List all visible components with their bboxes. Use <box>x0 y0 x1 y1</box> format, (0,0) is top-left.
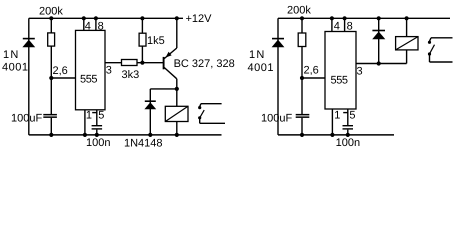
svg-text:3k3: 3k3 <box>122 69 140 81</box>
diode D3 1N4001 (right) <box>272 39 285 48</box>
switch relay contact (right) <box>428 38 453 62</box>
junction dot pin4 rail (right) <box>330 16 334 20</box>
svg-text:100n: 100n <box>86 137 110 149</box>
relay K2 coil (right) <box>396 18 418 63</box>
resistor 200k (left) <box>48 18 55 78</box>
pin label 4 (left) <box>85 21 91 33</box>
op-amp U1 555 timer (left) <box>76 30 106 109</box>
pin label 3 (left) <box>106 64 112 76</box>
label 100uF (right) <box>261 113 292 125</box>
pin label 1 (left) <box>86 110 92 122</box>
pin label 5 (right) <box>349 110 355 122</box>
label 1N4148 <box>124 137 163 149</box>
wire pin 5 (left) <box>96 110 98 125</box>
svg-text:200k: 200k <box>39 6 63 18</box>
label 1N (left) <box>3 49 19 61</box>
diode D4 flyback (right) <box>372 18 385 63</box>
label 200k (right) <box>287 5 311 17</box>
label 4001 (left) <box>2 62 28 74</box>
svg-text:1N: 1N <box>3 49 19 61</box>
label 1k5 <box>147 35 165 47</box>
junction dot 1N4148 ground <box>148 133 152 137</box>
junction dot emitter rail <box>175 16 179 20</box>
relay K1 coil (left) <box>165 106 188 135</box>
svg-text:100uF: 100uF <box>261 113 292 125</box>
label 555 (left) <box>80 73 97 85</box>
capacitor 100uF (left) <box>43 114 57 135</box>
svg-text:100n: 100n <box>336 137 360 149</box>
svg-text:1: 1 <box>334 110 340 122</box>
wire bottom rail right circuit <box>278 134 394 136</box>
pin label 3 (right) <box>357 66 363 78</box>
label 555 (right) <box>331 75 348 87</box>
junction dot pin3/diode (right) <box>377 61 381 65</box>
junction dot rail/200k (left) <box>49 16 53 20</box>
wire pin 8 (left) <box>95 18 97 30</box>
label 100uF (left) <box>11 113 42 125</box>
label 100n (left) <box>86 137 110 149</box>
wire pin 3 (left) <box>105 62 122 64</box>
junction dot rail/1k5 <box>140 16 144 20</box>
pin label 8 (left) <box>98 21 104 33</box>
svg-text:BC 327, 328: BC 327, 328 <box>174 58 235 70</box>
pin 5 tick (left) <box>92 112 97 114</box>
wire pin 1 (left) <box>84 110 86 135</box>
node +12V label <box>186 13 213 25</box>
wire pin 4 (left) <box>83 18 85 30</box>
capacitor 100n (right) <box>343 125 354 135</box>
svg-text:8: 8 <box>98 21 104 33</box>
junction dot pin8 rail (left) <box>94 16 98 20</box>
pin label 1 (right) <box>334 110 340 122</box>
wire emitter to rail <box>176 18 178 48</box>
wire pin 2,6 (right) <box>302 77 325 79</box>
junction dot 100n ground (left) <box>95 133 99 137</box>
svg-text:4: 4 <box>85 21 91 33</box>
wire top rail right circuit <box>278 17 450 19</box>
svg-text:5: 5 <box>349 110 355 122</box>
junction dot pin1 ground (left) <box>83 133 87 137</box>
junction dot rail/diode (right) <box>377 16 381 20</box>
wire left vertical rail right circuit <box>277 18 279 135</box>
resistor 3k3 <box>122 60 164 66</box>
diode D1 1N4001 (left) <box>22 39 35 48</box>
resistor 200k (right) <box>298 18 306 78</box>
svg-text:200k: 200k <box>287 5 311 17</box>
wire pin 5 (right) <box>347 109 349 125</box>
label 2,6 (right) <box>304 65 319 77</box>
resistor 1k5 <box>139 18 146 62</box>
switch relay contact (left) <box>198 104 225 124</box>
svg-text:+12V: +12V <box>186 13 213 25</box>
diode D2 1N4148 flyback (left) <box>144 89 156 135</box>
wire 200k to 100uF (left) <box>50 78 52 114</box>
wire pin 2,6 (left) <box>51 77 75 79</box>
label 3k3 <box>122 69 140 81</box>
wire pin 3 (right) <box>356 63 407 65</box>
svg-text:1: 1 <box>86 110 92 122</box>
junction dot collector node <box>175 87 179 91</box>
junction dot pin1 ground (right) <box>330 133 334 137</box>
svg-text:4001: 4001 <box>248 62 274 74</box>
wire pin 4 (right) <box>331 18 333 31</box>
wire bottom rail left circuit <box>29 134 222 136</box>
label 200k (left) <box>39 6 63 18</box>
junction dot rail/relay (right) <box>405 16 409 20</box>
svg-text:555: 555 <box>331 75 348 87</box>
junction dot base/1k5 <box>140 61 144 65</box>
junction dot 2,6 node <box>49 76 53 80</box>
svg-text:4001: 4001 <box>2 62 28 74</box>
junction dot relay ground (left) <box>175 133 179 137</box>
pin label 5 (left) <box>98 110 104 122</box>
pin label 4 (right) <box>334 21 340 33</box>
label 2,6 (left) <box>53 65 68 77</box>
junction dot pin4 rail (left) <box>82 16 86 20</box>
capacitor 100uF (right) <box>296 114 310 135</box>
label 1N (right) <box>249 49 265 61</box>
svg-text:2,6: 2,6 <box>53 65 68 77</box>
junction dot pin8 rail (right) <box>343 16 347 20</box>
svg-text:5: 5 <box>98 110 104 122</box>
wire pin 8 (right) <box>344 18 346 31</box>
pin 5 tick (right) <box>343 112 348 114</box>
svg-text:3: 3 <box>357 66 363 78</box>
pin label 8 (right) <box>347 21 353 33</box>
transistor Q1 BC327 PNP <box>164 48 177 79</box>
wire 200k to 100uF (right) <box>301 78 303 114</box>
wire collector to flyback diode <box>150 88 177 90</box>
svg-text:2,6: 2,6 <box>304 65 319 77</box>
svg-text:100uF: 100uF <box>11 113 42 125</box>
wire left vertical rail (diode branch) <box>28 18 30 135</box>
svg-text:1k5: 1k5 <box>147 35 165 47</box>
junction dot rail/200k (right) <box>300 16 304 20</box>
capacitor 100n (left) <box>92 125 103 135</box>
junction dot 100uF ground (right) <box>300 133 304 137</box>
svg-text:3: 3 <box>106 64 112 76</box>
svg-text:8: 8 <box>347 21 353 33</box>
wire collector down <box>176 79 178 107</box>
svg-text:1N4148: 1N4148 <box>124 137 163 149</box>
label 100n (right) <box>336 137 360 149</box>
wire pin 1 (right) <box>331 109 333 135</box>
label 4001 (right) <box>248 62 274 74</box>
op-amp U2 555 timer (right) <box>325 32 356 110</box>
svg-text:555: 555 <box>80 73 97 85</box>
svg-text:1N: 1N <box>249 49 265 61</box>
svg-text:4: 4 <box>334 21 340 33</box>
junction dot 2,6 node (right) <box>300 76 304 80</box>
junction dot 100n ground (right) <box>346 133 350 137</box>
wire top rail left circuit <box>29 17 183 19</box>
label BC 327, 328 <box>174 58 235 70</box>
junction dot 100uF ground <box>49 133 53 137</box>
